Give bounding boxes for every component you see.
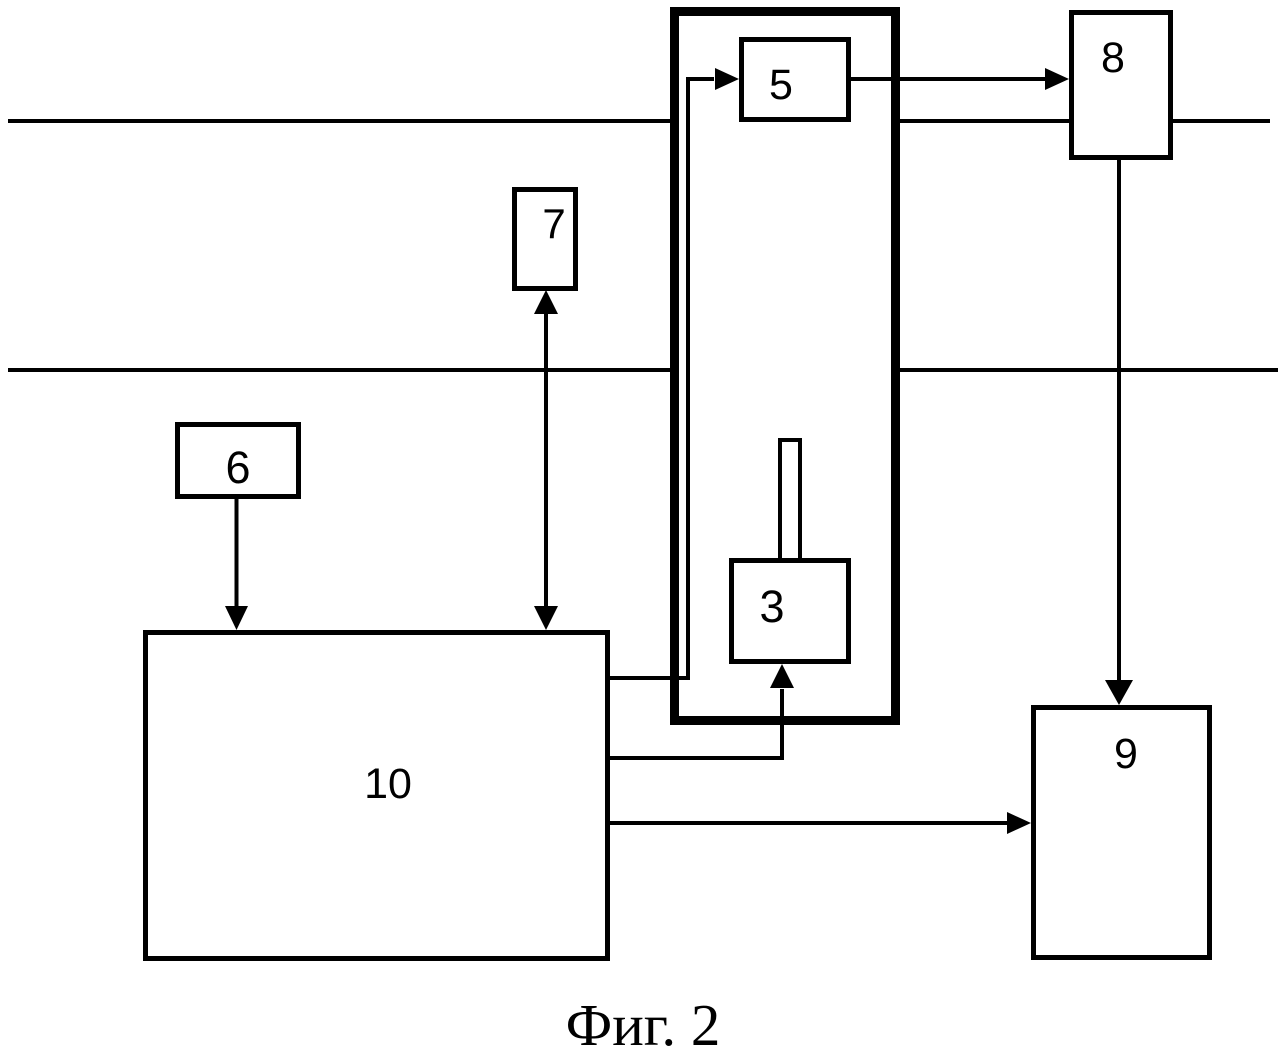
block 5 — [742, 40, 849, 120]
wire: from block 5 to block 8 — [851, 77, 1046, 81]
block 8 — [1072, 13, 1171, 158]
arrowhead into block 8 — [1045, 68, 1069, 90]
block 10 — [146, 633, 608, 959]
wire: from block 10 to block 9 — [608, 821, 1008, 825]
arrowhead into block 10 top (from block 7) — [534, 606, 558, 630]
svg-text:10: 10 — [364, 760, 412, 808]
antenna: narrow rectangle above block 3 — [780, 440, 800, 560]
wire: lower boundary line, left segment — [8, 368, 672, 372]
wire: lower boundary line, right segment — [896, 368, 1278, 372]
svg-text:7: 7 — [542, 200, 565, 247]
wire: upper boundary line, middle segment (between enclosure and block 8) — [896, 119, 1071, 123]
arrowhead into block 10 top (from block 6) — [225, 606, 248, 630]
wire: double arrow between block 7 and block 10 — [544, 313, 548, 608]
arrowhead into block 9 top — [1105, 680, 1133, 705]
wire: upper boundary line, right segment — [1171, 119, 1270, 123]
wire: feedback from block 10 up to block 5 — [608, 79, 714, 678]
block 3 — [732, 561, 849, 662]
svg-text:8: 8 — [1101, 34, 1125, 82]
svg-text:Фиг. 2: Фиг. 2 — [566, 992, 721, 1057]
svg-text:9: 9 — [1114, 730, 1138, 778]
svg-text:6: 6 — [225, 442, 250, 493]
block 7 — [515, 190, 576, 289]
arrowhead into block 9 left — [1007, 812, 1031, 834]
arrowhead into block 5 — [715, 68, 739, 90]
enclosure: thick-walled tall rectangle — [675, 12, 896, 721]
svg-text:3: 3 — [759, 581, 784, 632]
svg-text:5: 5 — [769, 61, 793, 109]
block 6 — [178, 425, 299, 497]
wire: from block 6 down to block 10 — [235, 498, 239, 607]
block 9 — [1034, 708, 1210, 958]
wire: upper boundary line, left segment — [8, 119, 672, 123]
wire: from block 10 to block 3 — [608, 689, 782, 758]
wire: from block 8 down to block 9 — [1117, 158, 1121, 682]
arrowhead into block 3 bottom — [770, 664, 794, 688]
arrowhead into block 7 bottom — [534, 290, 558, 314]
